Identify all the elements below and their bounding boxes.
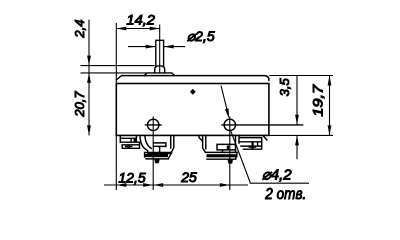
dimension line 3,5 bbox=[296, 76, 298, 160]
svg-text:⌀2,5: ⌀2,5 bbox=[187, 28, 215, 44]
svg-text:14,2: 14,2 bbox=[126, 11, 155, 27]
arrow 25 right bbox=[220, 183, 230, 187]
arrow d2,5 right bbox=[164, 45, 174, 49]
arrow 3,5 bottom bbox=[295, 135, 299, 145]
svg-text:20,7: 20,7 bbox=[72, 91, 87, 118]
arrow 14,2 right bbox=[150, 27, 160, 31]
svg-text:3,5: 3,5 bbox=[277, 77, 292, 96]
dimension line d2,5 bbox=[128, 46, 185, 48]
arrow 19,7 bottom bbox=[328, 125, 332, 135]
terminal right bracket rivet bbox=[251, 142, 253, 148]
svg-text:2 отв.: 2 отв. bbox=[264, 186, 306, 203]
plunger boss plate bbox=[144, 73, 175, 76]
terminal right bucket bbox=[203, 135, 239, 152]
svg-text:⌀4,2: ⌀4,2 bbox=[262, 167, 293, 184]
terminal right foot plate bbox=[207, 154, 238, 157]
terminal left inner lug bbox=[153, 143, 166, 154]
svg-text:2,4: 2,4 bbox=[72, 20, 87, 39]
terminal right bottom tab bbox=[227, 159, 233, 163]
terminal right flag rivet bbox=[227, 146, 229, 150]
terminal left bracket rivet ticks bbox=[126, 139, 132, 147]
svg-text:19,7: 19,7 bbox=[310, 83, 326, 116]
plunger dome bbox=[155, 66, 165, 73]
extension line pin center bbox=[159, 25, 161, 74]
extension line body bottom right bbox=[269, 134, 333, 136]
leader line d4,2 lower bbox=[231, 132, 309, 184]
arrow 12,5 right bbox=[143, 183, 153, 187]
arrow 14,2 left bbox=[116, 27, 126, 31]
extension line body left edge bbox=[115, 23, 117, 190]
leader line d4,2 upper bbox=[221, 86, 228, 115]
mounting hole left bbox=[148, 119, 159, 130]
switch body outline bbox=[116, 84, 269, 136]
arrow 2,4 bottom bbox=[87, 73, 91, 83]
terminal left foot plate bbox=[145, 154, 168, 157]
plunger pin bbox=[156, 40, 164, 66]
dimension line 14,2 bbox=[116, 28, 159, 30]
terminal right bracket lug bbox=[239, 136, 267, 149]
extension line plate top bbox=[81, 72, 148, 74]
extension line hole right vertical bbox=[229, 116, 231, 190]
svg-text:25: 25 bbox=[180, 169, 197, 185]
svg-text:12,5: 12,5 bbox=[118, 169, 145, 185]
arrow 20,7 bottom bbox=[87, 125, 91, 135]
dimension line bottom bbox=[104, 184, 248, 186]
arrow 2,4 top bbox=[87, 56, 91, 66]
dimension line 19,7 bbox=[329, 76, 331, 136]
extension line dome top bbox=[81, 65, 155, 67]
arrow 25 left bbox=[153, 183, 163, 187]
terminal right bracket rivet tick bbox=[249, 146, 255, 148]
terminal left bucket bbox=[140, 136, 174, 153]
extension line boss top right bbox=[269, 75, 333, 77]
arrow d2,5 left bbox=[146, 45, 156, 49]
arrow 12,5 left bbox=[116, 183, 126, 187]
terminal right foot bbox=[205, 152, 237, 159]
hole left center ticks bbox=[145, 124, 162, 126]
terminal left foot bbox=[145, 153, 172, 159]
terminal right inner flag lug bbox=[217, 144, 236, 152]
terminal left bracket lug bbox=[120, 136, 139, 148]
extension line hole left vertical bbox=[152, 116, 154, 190]
mounting hole right bbox=[224, 119, 235, 130]
dimension line 2,4 and 20,7 bbox=[88, 20, 90, 136]
orientation diamond marker bbox=[190, 89, 196, 95]
arrow 19,7 top bbox=[328, 76, 332, 86]
terminal right step bbox=[199, 135, 203, 141]
body cover seam bbox=[117, 76, 269, 81]
terminal left bottom tab bbox=[154, 159, 160, 163]
arrow 3,5 top bbox=[295, 115, 299, 125]
arrow leader d4,2 bbox=[225, 108, 229, 118]
terminal left rivet bbox=[128, 145, 130, 149]
hole right center tick to 3,5 dimension bbox=[221, 124, 303, 126]
